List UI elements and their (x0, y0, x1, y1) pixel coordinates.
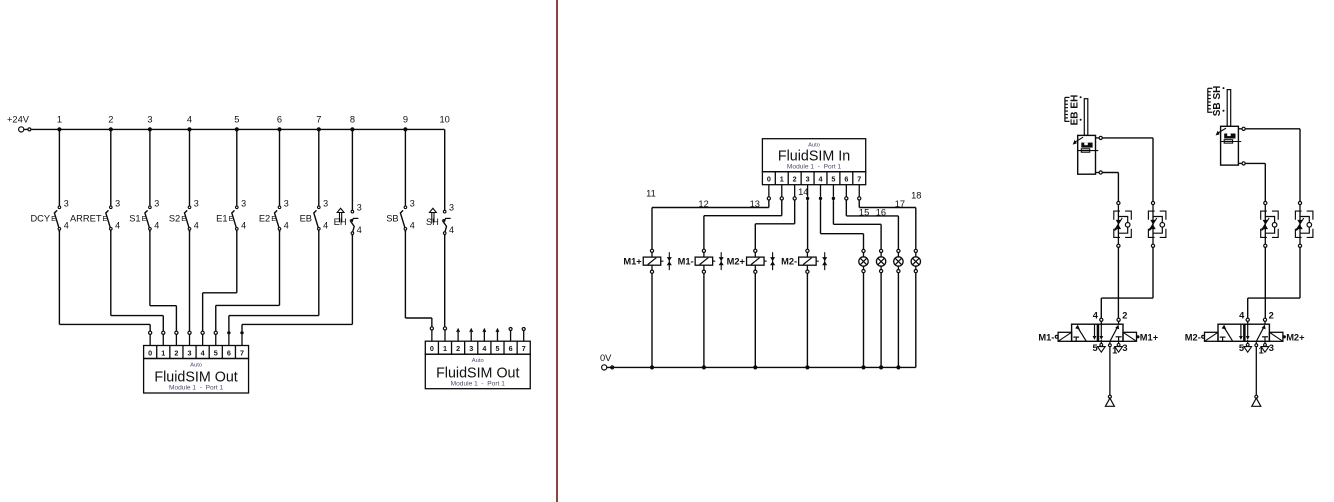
svg-text:EB: EB (1069, 111, 1080, 125)
wire ARRET to module pin (111, 230, 163, 331)
svg-text:3: 3 (449, 203, 454, 213)
terminal U3 pin 5 (832, 185, 835, 200)
svg-text:1: 1 (1112, 346, 1117, 356)
svg-text:5: 5 (495, 344, 499, 353)
svg-text:3: 3 (1269, 343, 1274, 353)
svg-text:E1: E1 (216, 213, 227, 223)
terminal U2 pin 7 (522, 328, 525, 342)
pipe cylinder A2 rod port to V2b to valve port 4 (1245, 129, 1300, 318)
svg-text:4: 4 (357, 225, 362, 235)
wire EB to module pin (229, 230, 319, 331)
svg-text:8: 8 (350, 114, 355, 124)
svg-text:1: 1 (161, 349, 165, 358)
svg-text:FluidSIM In: FluidSIM In (778, 149, 850, 165)
svg-text:DCY: DCY (30, 213, 50, 223)
terminal U3 pin 3 (806, 185, 809, 200)
terminal U1 pin 5 (214, 331, 217, 345)
svg-text:7: 7 (522, 344, 526, 353)
svg-text:1: 1 (1259, 346, 1264, 356)
flow control valve V2b (1295, 201, 1313, 247)
svg-text:3: 3 (410, 198, 415, 208)
svg-text:EB: EB (300, 213, 312, 223)
terminal U3 pin 4 (819, 185, 822, 200)
svg-text:0V: 0V (600, 353, 612, 363)
switch S2 (column 4) (169, 129, 199, 232)
lamp H2 (876, 249, 885, 367)
svg-text:S2: S2 (169, 213, 180, 223)
svg-text:7: 7 (857, 175, 861, 184)
wire DCY to module pin (59, 230, 150, 331)
svg-text:6: 6 (277, 114, 282, 124)
module U1 FluidSIM Out (Module 1 - Port 1) (144, 346, 249, 394)
switch SH (column 10) (426, 129, 454, 236)
svg-text:Auto: Auto (190, 363, 202, 369)
terminal U1 pin 4 (201, 331, 204, 345)
svg-text:3: 3 (1122, 343, 1127, 353)
terminal U2 pin 4 (483, 329, 486, 341)
svg-text:3: 3 (194, 198, 199, 208)
svg-text:3: 3 (241, 198, 246, 208)
terminal U1 pin 6 (227, 331, 230, 345)
cylinder A1 (EB/EH) (1065, 95, 1102, 175)
svg-text:9: 9 (403, 114, 408, 124)
0V rail wire (607, 366, 916, 368)
wire 18 from U3 pin 7 (859, 191, 921, 250)
svg-text:4: 4 (323, 221, 328, 231)
node 6 (277, 114, 282, 131)
svg-text:M1+: M1+ (623, 256, 642, 266)
switch EH (column 8) (334, 129, 362, 236)
svg-text:E: E (142, 214, 147, 223)
svg-text:1: 1 (443, 344, 447, 353)
svg-text:FluidSIM Out: FluidSIM Out (154, 370, 237, 386)
wire 15 from U3 pin 4 (821, 200, 870, 249)
svg-text:13: 13 (750, 199, 760, 209)
wire lamp H2 to 0V (880, 273, 882, 368)
wire E1 to module pin (203, 230, 237, 331)
svg-text:2: 2 (1122, 311, 1127, 321)
svg-text:M2-: M2- (1185, 332, 1201, 342)
wire coil M2- to 0V (806, 273, 808, 367)
svg-text:M1-: M1- (678, 256, 694, 266)
svg-text:ARRET: ARRET (70, 213, 102, 223)
switch E2 (column 6) (259, 129, 289, 232)
svg-text:E: E (51, 214, 56, 223)
svg-text:Module 1 - Port 1: Module 1 - Port 1 (451, 380, 506, 387)
wire 16 from U3 pin 5 (833, 200, 886, 249)
terminal U2 pin 5 (496, 329, 499, 341)
svg-text:2: 2 (456, 344, 460, 353)
node 9 (403, 114, 408, 131)
terminal U1 pin 1 (162, 331, 165, 345)
wire SB to module pin (405, 230, 431, 327)
svg-text:5: 5 (1239, 343, 1244, 353)
node 2 (108, 114, 113, 131)
wire 11 from U3 pin 0 (646, 189, 769, 250)
wire coil M1+ to 0V (651, 273, 653, 367)
svg-text:E2: E2 (259, 213, 270, 223)
svg-text:2: 2 (793, 175, 797, 184)
svg-text:M1+: M1+ (1140, 332, 1159, 342)
svg-text:18: 18 (911, 191, 921, 201)
svg-text:11: 11 (646, 189, 656, 199)
node 7 (316, 114, 321, 131)
svg-text:1: 1 (780, 175, 784, 184)
svg-text:3: 3 (469, 344, 473, 353)
module U2 FluidSIM Out (Module 1 - Port 1) (425, 341, 530, 389)
svg-text:Module 1 - Port 1: Module 1 - Port 1 (787, 164, 842, 171)
svg-text:4: 4 (284, 221, 289, 231)
svg-text:3: 3 (323, 198, 328, 208)
svg-text:E: E (271, 214, 276, 223)
junction on 0V rail (753, 365, 757, 369)
wire 14 from U3 pin 3 (798, 187, 808, 249)
svg-text:4: 4 (201, 349, 205, 358)
flow control valve V2a (1261, 201, 1279, 247)
terminal U1 pin 7 (240, 331, 243, 345)
svg-text:6: 6 (227, 349, 231, 358)
svg-text:7: 7 (316, 114, 321, 124)
svg-text:10: 10 (440, 114, 450, 124)
svg-text:0: 0 (148, 349, 152, 358)
svg-text:4: 4 (1239, 311, 1245, 321)
svg-text:3: 3 (115, 198, 120, 208)
wire 12 from U3 pin 1 (698, 199, 781, 249)
switch S1 (column 3) (129, 129, 159, 232)
pipe cylinder A2 piston port to V2a to valve port 2 (1245, 163, 1265, 318)
svg-text:6: 6 (844, 175, 848, 184)
wire coil M2+ to 0V (754, 273, 756, 367)
svg-text:7: 7 (240, 349, 244, 358)
svg-text:4: 4 (410, 221, 415, 231)
junction on 0V rail (896, 365, 900, 369)
terminal U2 pin 1 (443, 327, 446, 341)
terminal U2 pin 6 (509, 328, 512, 342)
flow control valve V1b (1148, 201, 1166, 247)
svg-text:M2-: M2- (781, 256, 797, 266)
svg-text:SB: SB (386, 213, 398, 223)
svg-text:2: 2 (174, 349, 178, 358)
+24V supply terminal (7, 115, 59, 132)
svg-text:4: 4 (187, 114, 192, 124)
switch E1 (column 5) (216, 129, 246, 232)
wire lamp H4 to 0V (915, 273, 917, 368)
pipe cylinder A1 rod port to V1b to valve port 4 (1101, 138, 1153, 318)
svg-text:4: 4 (154, 221, 159, 231)
svg-text:14: 14 (798, 187, 808, 197)
svg-text:3: 3 (806, 175, 810, 184)
svg-text:3: 3 (154, 198, 159, 208)
valve Y2 5/2 (M2-/M2+) (1185, 311, 1305, 407)
svg-text:M1-: M1- (1038, 332, 1054, 342)
svg-text:SB: SB (1212, 102, 1223, 116)
svg-text:S1: S1 (129, 213, 140, 223)
+24V rail wire (59, 128, 444, 130)
svg-text:M2+: M2+ (727, 256, 746, 266)
terminal U2 pin 2 (457, 329, 460, 341)
node 1 (57, 114, 62, 131)
wire lamp H3 to 0V (897, 273, 899, 368)
coil M1- (678, 249, 724, 367)
svg-text:3: 3 (147, 114, 152, 124)
svg-text:5: 5 (1093, 343, 1098, 353)
wire 13 from U3 pin 2 (750, 199, 795, 250)
wire EH to module pin (242, 234, 352, 331)
terminal U3 pin 1 (780, 185, 783, 200)
svg-text:SH: SH (1212, 86, 1223, 100)
svg-text:EH: EH (334, 217, 347, 227)
terminal U3 pin 6 (845, 185, 848, 200)
lamp H1 (859, 249, 868, 367)
svg-text:M2+: M2+ (1286, 332, 1305, 342)
node 5 (234, 114, 239, 131)
module U3 FluidSIM In (Module 1 - Port 1) (762, 139, 865, 185)
svg-text:3: 3 (284, 198, 289, 208)
svg-text:4: 4 (819, 175, 823, 184)
svg-text:2: 2 (108, 114, 113, 124)
svg-text:4: 4 (241, 221, 246, 231)
svg-text:12: 12 (698, 199, 708, 209)
switch ARRET (column 2) (70, 129, 120, 232)
svg-text:E: E (103, 214, 108, 223)
coil M1+ (623, 249, 671, 367)
coil M2- (781, 249, 827, 367)
svg-text:0: 0 (430, 344, 434, 353)
terminal U1 pin 2 (175, 331, 178, 345)
svg-text:1: 1 (57, 114, 62, 124)
svg-text:3: 3 (64, 198, 69, 208)
svg-text:E: E (181, 214, 186, 223)
lamp H4 (911, 249, 920, 367)
svg-text:FluidSIM Out: FluidSIM Out (436, 365, 519, 381)
svg-text:+24V: +24V (7, 115, 30, 125)
svg-text:4: 4 (115, 221, 120, 231)
flow control valve V1a (1114, 201, 1132, 247)
svg-text:6: 6 (509, 344, 513, 353)
cylinder A2 (SB/SH) (1208, 86, 1245, 166)
junction on 0V rail (650, 365, 654, 369)
wire coil M1- to 0V (703, 273, 705, 367)
wire S1 to module pin (150, 230, 177, 331)
wire 17 from U3 pin 6 (846, 199, 905, 249)
node 8 (350, 114, 355, 131)
svg-text:2: 2 (1269, 311, 1274, 321)
switch SB (column 9) (386, 129, 415, 232)
junction on 0V rail (879, 365, 883, 369)
wire lamp H1 to 0V (863, 273, 865, 368)
wire E2 to module pin (216, 230, 280, 331)
switch EB (column 7) (300, 129, 329, 232)
svg-text:5: 5 (831, 175, 835, 184)
page divider line (556, 0, 558, 502)
svg-text:SH: SH (426, 217, 439, 227)
terminal U1 pin 0 (149, 331, 152, 345)
junction on 0V rail (805, 365, 809, 369)
svg-text:Auto: Auto (472, 358, 484, 364)
terminal U2 pin 0 (430, 327, 433, 341)
svg-text:Module 1 - Port 1: Module 1 - Port 1 (169, 385, 224, 392)
svg-text:4: 4 (64, 221, 69, 231)
svg-text:5: 5 (234, 114, 239, 124)
terminal U3 pin 0 (767, 185, 770, 200)
svg-text:4: 4 (449, 225, 454, 235)
svg-text:0: 0 (767, 175, 771, 184)
terminal U2 pin 3 (470, 329, 473, 341)
junction on 0V rail (702, 365, 706, 369)
0V supply terminal (600, 353, 614, 370)
svg-text:3: 3 (188, 349, 192, 358)
svg-text:E: E (229, 214, 234, 223)
coil M2+ (727, 249, 775, 367)
svg-text:EH: EH (1069, 95, 1080, 109)
node 3 (147, 114, 152, 131)
node 4 (187, 114, 192, 131)
valve Y1 5/2 (M1-/M1+) (1038, 311, 1158, 407)
terminal U3 pin 2 (793, 185, 796, 200)
pipe cylinder A1 piston port to V1a to valve port 2 (1102, 173, 1118, 319)
svg-text:4: 4 (1093, 311, 1099, 321)
terminal U3 pin 7 (858, 185, 861, 200)
junction on 0V rail (861, 365, 865, 369)
svg-text:4: 4 (194, 221, 199, 231)
svg-text:3: 3 (357, 203, 362, 213)
node 10 (440, 114, 450, 124)
terminal U1 pin 3 (188, 331, 191, 345)
svg-text:5: 5 (214, 349, 218, 358)
switch DCY (column 1) (30, 129, 68, 232)
svg-text:4: 4 (482, 344, 486, 353)
wire S2 to module pin (189, 230, 191, 331)
wire SH to module pin (444, 234, 446, 326)
lamp H3 (894, 249, 903, 367)
